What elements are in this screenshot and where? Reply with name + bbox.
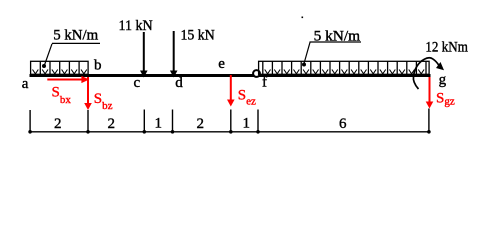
svg-text:2: 2 (54, 116, 62, 132)
red reaction S_ez arrow (227, 75, 235, 107)
svg-text:b: b (94, 58, 102, 74)
red reaction S_gz arrow (426, 77, 434, 109)
load box 2 arrowheads (265, 70, 424, 74)
red reaction S_bx arrow (47, 76, 89, 83)
svg-text:d: d (175, 75, 183, 91)
red reaction S_bz arrow (84, 77, 92, 110)
hinge circle at f (253, 70, 260, 77)
svg-text:6: 6 (339, 116, 347, 132)
stray dot (302, 17, 304, 19)
svg-text:12 kNm: 12 kNm (425, 40, 468, 56)
svg-text:2: 2 (197, 116, 205, 132)
svg-text:g: g (439, 72, 447, 88)
svg-text:11 kN: 11 kN (119, 18, 153, 34)
distributed load box 1 (a-b) (31, 61, 89, 74)
svg-text:15 kN: 15 kN (181, 28, 215, 44)
leader line to load box 2 (304, 42, 310, 63)
svg-text:1: 1 (155, 116, 163, 132)
svg-text:f: f (262, 74, 267, 90)
distributed load box 2 (f-g) (259, 61, 430, 74)
force 15 kN arrow (170, 31, 178, 78)
moment arrowhead (436, 62, 444, 70)
svg-text:c: c (134, 75, 141, 91)
beam a-g (30, 74, 431, 77)
underline of left 5 kN/m (52, 42, 100, 44)
svg-text:5 kN/m: 5 kN/m (53, 28, 98, 44)
svg-text:e: e (218, 56, 225, 72)
leader dot box 2 (302, 63, 306, 67)
leader line to load box 1 (45, 44, 53, 65)
dimension line (30, 131, 430, 133)
underline of right 5 kN/m (310, 41, 362, 43)
moment arc at g (413, 58, 439, 89)
dimension ticks (30, 109, 429, 133)
load box 1 arrowheads (33, 70, 87, 74)
dimension dots (28, 130, 430, 134)
svg-text:2: 2 (108, 116, 116, 132)
svg-text:1: 1 (243, 116, 251, 132)
force 11 kN arrow (140, 32, 148, 78)
svg-text:a: a (22, 76, 29, 92)
leader dot box 1 (42, 64, 46, 68)
